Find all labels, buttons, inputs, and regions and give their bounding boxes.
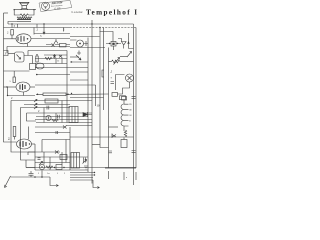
capacitor C6 ant [29,171,34,177]
svg-text:2: 2 [38,173,39,175]
node d2 [117,43,118,44]
wire y132.5 [35,132,70,134]
wire corner left bottom 3 [26,160,35,168]
wire corner left bottom 2 [21,108,71,161]
vertical x95.5b [95,85,97,101]
node y93.5 [71,93,72,94]
arrowhead x128.5 [127,41,129,44]
vertical x56 cl [55,59,57,64]
diode D4 [63,126,67,129]
diode D3 [83,112,92,117]
vertical bus x133.5 [133,24,135,185]
diode D2 [59,55,62,58]
wire step right [100,32,114,42]
vertical x44 [43,108,45,123]
wire y47.5 mid [70,47,105,49]
svg-text:65: 65 [129,121,131,123]
wire bus y27.5 dashed [70,27,136,29]
wire y139.5 [42,140,70,153]
connector X2 [52,44,55,47]
diode arrow b [34,104,37,107]
wire y104.5 [24,104,70,106]
node x92 [91,23,92,24]
capacitor C10 boxed [111,42,116,47]
wire j1 drop [11,24,13,28]
svg-text:Lorenz: Lorenz [72,10,84,14]
tube V2b [36,63,44,69]
wire y144.5 seg [92,144,100,146]
ribbon cable [70,172,100,189]
IF transformer box [69,107,78,123]
wire drop x7 [6,47,8,54]
wire y116.5 [36,116,88,118]
wire y63.5 [35,63,67,65]
pin 1 [108,171,110,179]
wire arrow x128.5 [129,33,134,49]
resistor R7 vert [13,77,15,83]
transformer T2 box [71,153,80,169]
wire y46 [7,46,70,48]
wire bus y24 [8,23,134,25]
wire funnel top [118,39,122,42]
wire y162.5 [35,162,70,164]
box top IF [45,99,58,103]
node d1 [109,43,110,44]
transformer T1 secondary [17,21,31,23]
diode arrow c [34,107,37,110]
wire y58.5 [35,58,67,60]
diode D7 [39,162,43,166]
resistor R3 mid [36,54,38,62]
capacitor C7 [38,158,41,160]
capacitor C2 [47,106,49,110]
vertical x70 bottom [69,127,71,170]
wire y50.5 [28,50,67,52]
tube mark small [54,39,58,44]
wire y157 [35,156,88,158]
vertical x44 bottom [43,152,45,165]
junction x44 [43,23,44,24]
wire y152 [28,152,60,155]
resistor R1 in loop [14,10,34,16]
wire x95.5 [95,101,97,107]
antenna arrow [5,171,51,188]
box C housing [30,64,36,70]
connector X1 arrow [76,55,81,60]
wire y71 [4,70,30,72]
wire y170 [35,169,88,171]
wire x7.5 down [7,87,9,96]
vertical x66 bottom [65,140,67,163]
wire transformer to bus [8,22,17,25]
svg-text:160: 160 [129,110,132,112]
wire y122.5 [36,122,92,124]
svg-text:Tempelhof I: Tempelhof I [86,8,137,16]
capacitor C4 [56,131,58,134]
diode D1 [53,54,56,59]
node x100 [99,27,100,28]
wire y57 right [70,56,79,58]
speaker LS [20,2,30,9]
box small bottom [56,165,62,170]
capacitor marks [111,82,115,84]
capacitor C8 [132,151,136,153]
ground GND [84,166,88,169]
resistor R8 long [36,93,70,96]
resistor R4 zigzag [45,57,52,59]
coil L1 right [121,97,132,132]
resistor R12 zz [46,166,53,168]
tick x37 [36,24,38,28]
svg-text:1w: 1w [47,173,50,175]
vertical x56a [55,113,57,120]
pin 3 [135,172,137,180]
wire y67.5 [35,67,88,69]
wire y62 right [70,61,88,63]
svg-text:10: 10 [97,104,101,108]
pot R6 [109,58,134,65]
svg-text:4w: 4w [8,137,11,140]
transformer T1 core [17,19,31,20]
wire y85 [35,84,96,86]
wire y97.5 [70,97,104,99]
vertical bus x136 [135,28,137,169]
vertical x62 cl [61,58,63,64]
tube V5 [15,127,36,150]
capacitor C9 [109,151,113,153]
vertical x62 bottom [61,152,63,165]
svg-text:12: 12 [57,61,59,63]
vertical bus x103 [103,28,105,111]
resistor R9 zz [52,120,58,122]
svg-text:225: 225 [129,104,132,106]
node X1 [80,59,82,61]
tube V1 [4,28,71,47]
svg-text:f2 MB: f2 MB [54,7,61,11]
node y62 [71,61,72,62]
box comp2 bottom [60,155,67,160]
node y95 [7,95,8,96]
svg-text:2: 2 [64,173,65,175]
stamp border [39,1,72,12]
tube V2 small [15,51,33,64]
vertical bus x92 [91,20,93,184]
left border wire [4,13,17,142]
tube V3 [4,82,36,96]
vertical x35 low [34,144,36,170]
pot circle [70,40,88,47]
diode D6 [55,151,59,154]
tube V4 small circle [46,115,51,120]
wire x79 [77,51,81,56]
wire bracket x26.5 [27,113,93,121]
resistor R2 vertical [11,30,14,39]
bracket x103 [102,70,104,77]
label 3b boxed [4,51,9,56]
wire y44.5 segs [46,44,70,46]
node b2 [63,167,64,168]
tube V6 small [39,164,44,169]
wire y119.5 [35,119,92,121]
stamp circle with bulb [41,2,49,10]
thick bus y167.5 right [105,167,136,169]
arrow out bottom [50,177,59,187]
label specks bottom [38,173,65,175]
node speaker left [14,9,15,10]
svg-text:2w: 2w [111,70,113,73]
capacitor C5 arrow [83,158,87,164]
vertical bus x100 [100,28,109,148]
wire y94 right [70,93,109,95]
stub x113.5 [113,46,115,50]
wire y74.5 [36,74,70,76]
wire y36.5 mid [70,36,100,38]
node j1 [11,23,12,24]
wire left top corner [4,12,9,14]
vertical bus x108.5 [108,48,110,169]
svg-text:3: 3 [5,52,7,56]
trimmer funnel [122,42,127,49]
wire y53 left [8,53,15,55]
vertical bus x88 [87,38,89,173]
wire y95.5 [8,95,36,97]
tick x63.5 [63,28,65,32]
capacitor C3 [58,115,60,119]
wire loop to transformer [23,15,25,18]
wire speaker bus [14,9,37,11]
wire x14 up [13,71,15,77]
box comp top [60,44,67,47]
vertical x62 [61,101,63,123]
resistor R10 vert [13,127,16,137]
diode D5 [112,134,116,139]
node b1 [54,167,55,168]
vertical x50 bottom [49,157,51,170]
transformer T1 winding [17,17,32,19]
lamp circle right [112,74,134,100]
resistor R11 vert right [121,138,127,148]
stamp text lines [51,1,63,10]
wire bus y27.5 [4,27,71,29]
wire corner left bottom 1 [11,101,92,153]
node speaker right [33,9,34,10]
wire y80 [70,79,88,81]
wire y56.5 seg [120,56,127,58]
capacitor C11 [132,97,136,99]
vertical x67 [66,51,68,123]
zigzag small right [124,130,126,137]
wire y55 [44,54,67,56]
wire y125.5 [66,125,92,127]
wire y137 right [70,136,134,138]
tick x17.5 [17,24,19,28]
tick x128 y52 [127,52,132,58]
pin 2 [123,172,125,180]
svg-text:110: 110 [129,115,132,117]
wire loop y74.5 [116,75,125,91]
wire y167.5 [26,167,105,169]
wire row y43.5 [106,43,121,45]
arrow down x44 [43,24,45,34]
diode arrow a [34,100,37,103]
wire y72 [70,71,88,73]
wire y127 rightmost [109,126,119,128]
wire y127 [35,126,64,128]
wire y33.5 [34,33,70,35]
